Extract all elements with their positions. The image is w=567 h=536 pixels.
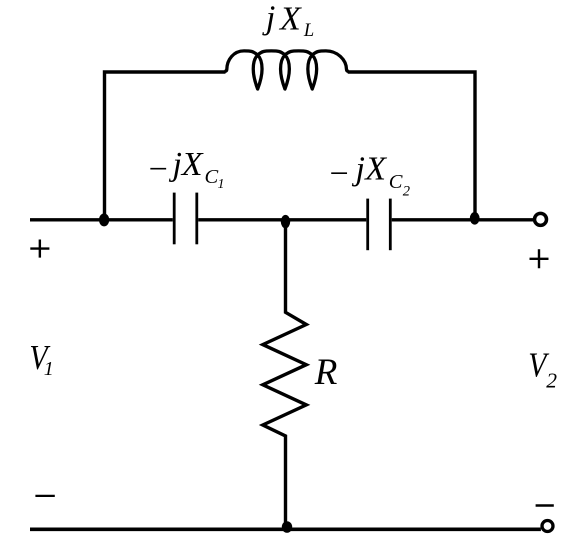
svg-text:C: C bbox=[205, 166, 219, 188]
svg-text:R: R bbox=[314, 352, 338, 393]
svg-text:X: X bbox=[363, 151, 387, 188]
svg-text:1: 1 bbox=[218, 177, 225, 192]
svg-text:L: L bbox=[303, 21, 314, 41]
svg-text:j: j bbox=[169, 146, 182, 183]
svg-text:X: X bbox=[180, 146, 204, 183]
svg-text:j: j bbox=[352, 151, 365, 188]
svg-text:2: 2 bbox=[546, 369, 557, 393]
svg-text:−: − bbox=[327, 155, 350, 192]
svg-text:C: C bbox=[389, 171, 403, 193]
svg-text:j: j bbox=[262, 0, 275, 37]
svg-text:−: − bbox=[146, 151, 169, 188]
svg-text:X: X bbox=[278, 1, 302, 38]
svg-text:2: 2 bbox=[403, 183, 410, 199]
svg-text:1: 1 bbox=[44, 358, 54, 380]
